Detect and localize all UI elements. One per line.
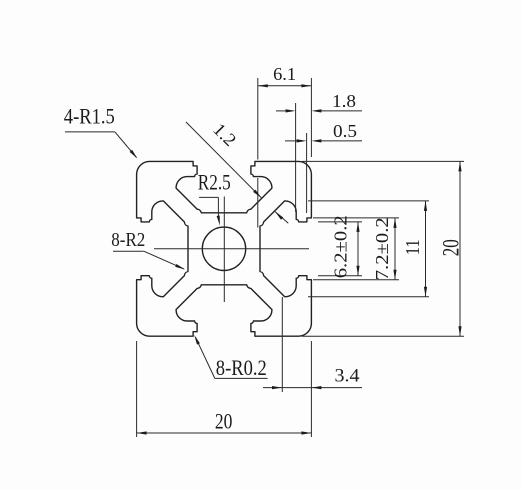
- svg-text:8-R0.2: 8-R0.2: [216, 355, 267, 380]
- svg-text:0.5: 0.5: [333, 121, 357, 141]
- svg-text:1.8: 1.8: [332, 91, 356, 111]
- svg-text:6.1: 6.1: [273, 64, 296, 84]
- svg-text:20: 20: [438, 239, 463, 256]
- svg-text:11: 11: [402, 239, 424, 255]
- svg-text:R2.5: R2.5: [198, 170, 231, 195]
- svg-text:6.2±0.2: 6.2±0.2: [330, 215, 350, 278]
- svg-text:7.2±0.2: 7.2±0.2: [372, 217, 392, 280]
- svg-text:8-R2: 8-R2: [111, 229, 145, 251]
- svg-text:20: 20: [215, 409, 233, 434]
- svg-text:3.4: 3.4: [335, 366, 361, 387]
- svg-text:4-R1.5: 4-R1.5: [64, 104, 115, 129]
